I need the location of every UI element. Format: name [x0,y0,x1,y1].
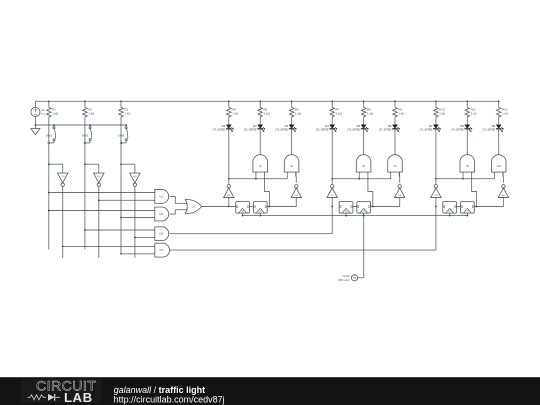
svg-text:D1: D1 [222,124,226,128]
svg-text:LTL-307EE: LTL-307EE [451,128,464,132]
svg-text:LTL-307EE: LTL-307EE [420,128,433,132]
svg-text:1 kΩ: 1 kΩ [295,112,302,116]
svg-text:256 mHz: 256 mHz [338,278,350,282]
svg-text:1 kΩ: 1 kΩ [124,112,131,116]
svg-text:D5: D5 [357,124,361,128]
svg-text:LTL-307EE: LTL-307EE [212,128,225,132]
svg-text:1 kΩ: 1 kΩ [502,112,509,116]
svg-text:1 kΩ: 1 kΩ [398,112,405,116]
svg-text:U14: U14 [159,214,164,216]
svg-text:D3: D3 [285,124,289,128]
svg-text:LTL-307EE: LTL-307EE [379,128,392,132]
svg-text:LTL-307EE: LTL-307EE [316,128,329,132]
svg-text:SW1: SW1 [46,133,53,137]
svg-text:U12: U12 [133,176,136,178]
svg-text:LAB: LAB [64,390,93,405]
svg-text:1 kΩ: 1 kΩ [88,112,95,116]
svg-text:D2: D2 [253,124,257,128]
svg-text:U18: U18 [497,166,502,168]
svg-text:1 kΩ: 1 kΩ [336,112,343,116]
svg-text:1 kΩ: 1 kΩ [439,112,446,116]
svg-text:5 V: 5 V [41,112,45,116]
svg-text:LTL-307EE: LTL-307EE [244,128,257,132]
svg-text:D9: D9 [492,124,496,128]
svg-text:U16: U16 [159,250,164,252]
svg-text:LTL-307EE: LTL-307EE [347,128,360,132]
svg-text:SW3: SW3 [118,133,125,137]
svg-text:SW2: SW2 [82,133,89,137]
svg-text:D8: D8 [460,124,464,128]
svg-text:U11: U11 [97,176,100,178]
svg-text:U13: U13 [159,196,164,198]
svg-text:1 kΩ: 1 kΩ [52,112,59,116]
svg-text:1 kΩ: 1 kΩ [232,112,239,116]
svg-text:LTL-307EE: LTL-307EE [482,128,495,132]
svg-text:http://circuitlab.com/cedv87j: http://circuitlab.com/cedv87j [114,394,225,404]
svg-text:U10: U10 [61,176,64,178]
svg-text:U15: U15 [159,234,164,236]
svg-text:1 kΩ: 1 kΩ [264,112,271,116]
svg-text:1 kΩ: 1 kΩ [471,112,478,116]
svg-text:U17: U17 [192,206,197,208]
svg-text:D7: D7 [429,124,433,128]
svg-text:1 kΩ: 1 kΩ [367,112,374,116]
svg-text:D6: D6 [388,124,392,128]
svg-text:LTL-307EE: LTL-307EE [275,128,288,132]
svg-text:D4: D4 [325,124,329,128]
